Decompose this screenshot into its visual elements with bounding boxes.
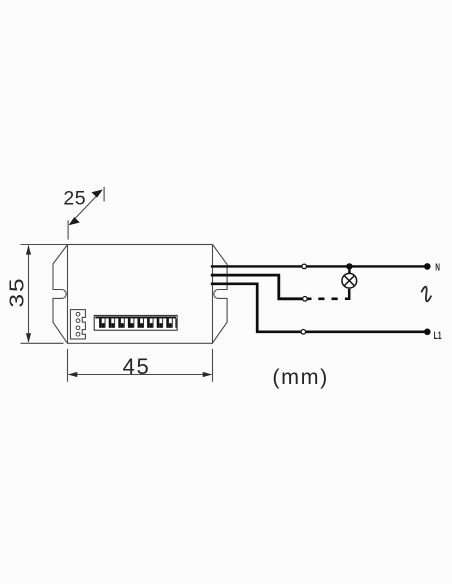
node N dot — [424, 263, 431, 270]
dimension 25: diagonal double arrow — [69, 190, 103, 226]
svg-text:45: 45 — [123, 354, 151, 379]
dimension 35: top extension line — [21, 244, 68, 246]
enclosure right mounting tab with screw slot — [213, 245, 228, 343]
connector hole 2 — [76, 319, 80, 323]
terminal strip TB1 — [94, 315, 177, 330]
connector block J1 (4-hole) — [70, 310, 85, 339]
svg-text:N: N — [435, 261, 440, 273]
wire corner below lamp — [345, 289, 349, 299]
label N — [435, 261, 440, 273]
lamp E1 (circle with X) — [342, 273, 357, 288]
svg-text:35: 35 — [5, 276, 27, 307]
connector hole 3 — [76, 326, 80, 330]
dashed wire to lamp — [307, 297, 311, 300]
svg-text:(mm): (mm) — [272, 365, 329, 389]
dimension 35: bottom extension line — [21, 342, 64, 344]
dimension 45: right extension line — [212, 349, 214, 382]
enclosure body rectangle — [68, 245, 213, 344]
node L dot — [424, 329, 431, 336]
junction dot — [346, 263, 352, 269]
enclosure left mounting tab with screw slot — [53, 245, 68, 344]
terminal circle on L wire — [301, 330, 306, 335]
dimension 25: tick at arrow head — [103, 187, 105, 202]
wire junction to lamp — [348, 266, 350, 274]
label L1 — [434, 330, 442, 342]
dimension 45: left extension line — [67, 349, 69, 382]
wire switched (middle) — [211, 275, 303, 299]
wire L (bottom) — [211, 284, 427, 332]
connector hole 4 — [76, 332, 80, 336]
dimension 25: vertical extension line — [67, 220, 69, 239]
terminal circle on N wire — [302, 264, 307, 269]
dimension 35: dimension line with arrows — [26, 245, 31, 343]
AC tilde symbol — [419, 286, 433, 302]
svg-text:25: 25 — [63, 188, 86, 210]
connector hole 1 — [76, 312, 80, 316]
terminal circle on switched wire — [303, 297, 308, 302]
wire N (top) — [211, 265, 427, 267]
dimension 45: dimension line with arrows — [68, 372, 212, 377]
svg-text:L1: L1 — [434, 330, 442, 342]
